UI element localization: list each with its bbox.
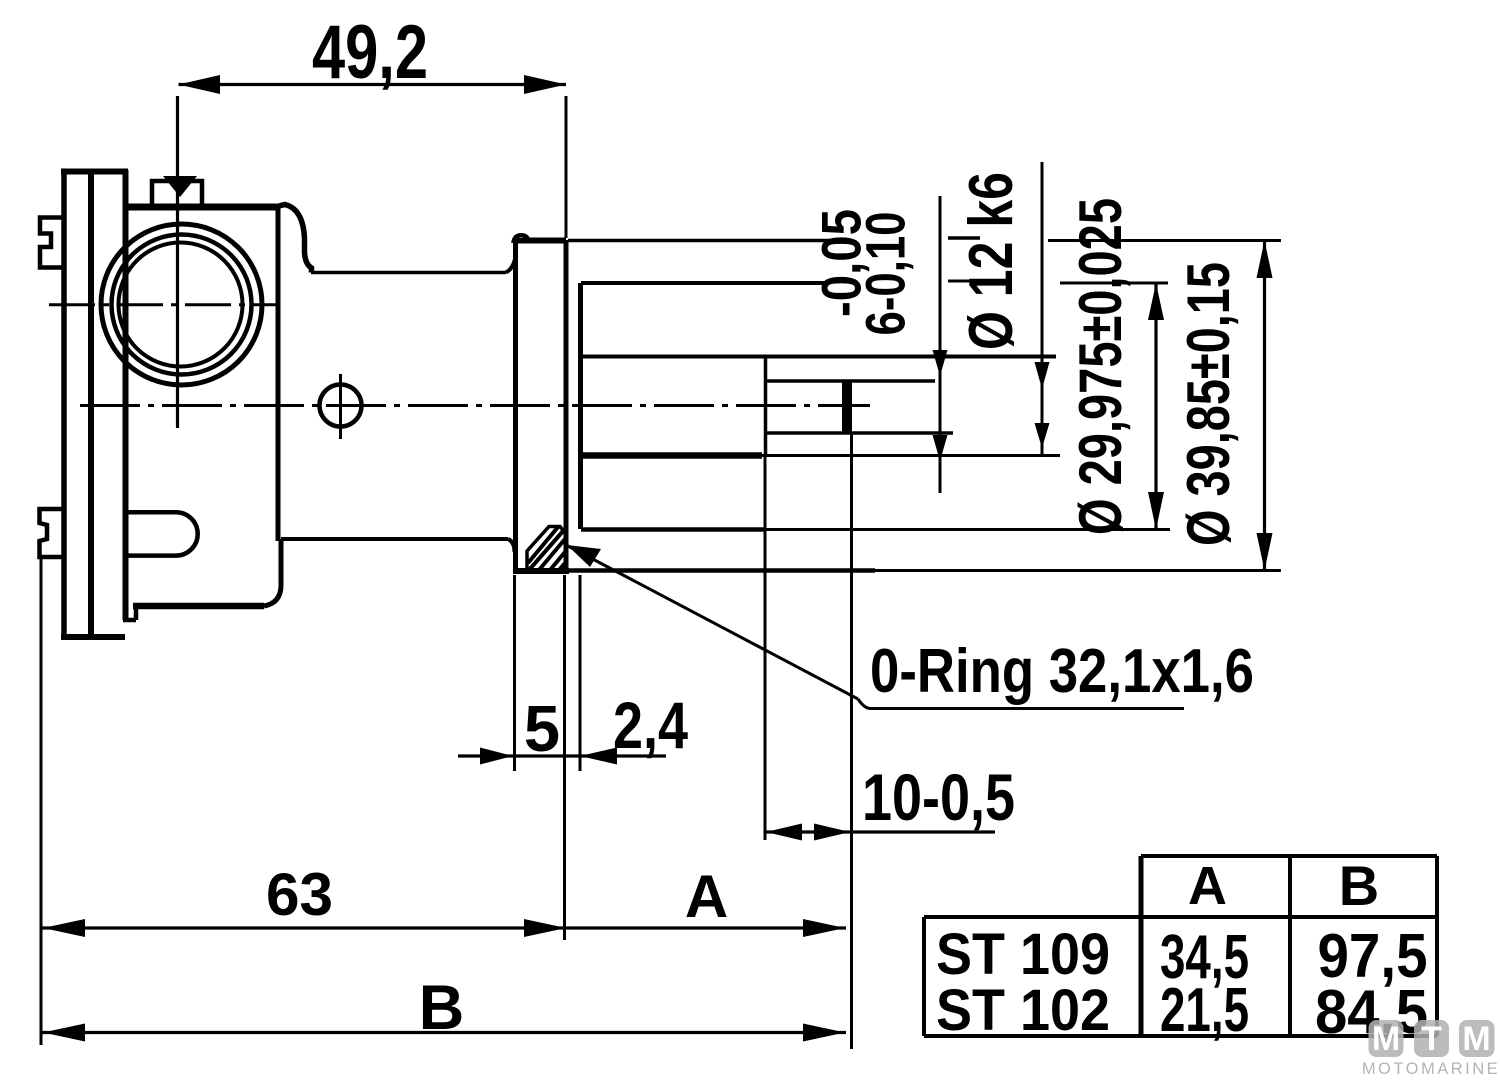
slot bottom line <box>765 431 953 435</box>
slot inner end face <box>842 380 852 434</box>
tube top edge <box>581 281 827 285</box>
mounting slot with rounded end <box>126 512 198 555</box>
svg-text:63: 63 <box>266 861 333 928</box>
small hole circle with cross <box>320 374 362 439</box>
svg-text:B: B <box>1339 854 1379 917</box>
dim 10-0,5 <box>765 433 995 1049</box>
upper left tab <box>40 218 63 268</box>
port middle circle <box>112 235 252 375</box>
lower left tab <box>40 509 64 557</box>
svg-text:B: B <box>419 973 465 1043</box>
tube top extension segments <box>948 280 980 283</box>
boss on body top <box>152 181 202 207</box>
port bore circle <box>119 243 243 367</box>
port outer circle <box>101 224 262 385</box>
slot step vertical <box>764 357 768 457</box>
shaft axis center line <box>80 404 870 407</box>
svg-text:6-0,10: 6-0,10 <box>854 212 917 336</box>
dim 49,2 line <box>163 75 566 238</box>
svg-text:M: M <box>1462 1020 1490 1058</box>
dim B line <box>41 1024 846 1042</box>
svg-text:ST 102: ST 102 <box>936 978 1110 1043</box>
slot top line <box>765 379 935 383</box>
port vertical center line <box>176 96 179 428</box>
svg-text:MOTOMARINE: MOTOMARINE <box>1362 1060 1500 1078</box>
svg-text:0-Ring 32,1x1,6: 0-Ring 32,1x1,6 <box>870 637 1254 706</box>
svg-text:49,2: 49,2 <box>312 10 428 95</box>
dim O39,85 vertical line <box>1257 241 1273 571</box>
pump body outline <box>123 170 516 620</box>
shaft bottom line <box>583 452 762 459</box>
port horizontal center line <box>49 303 280 306</box>
O-ring leader line <box>567 545 1184 709</box>
svg-text:Ø 39,85±0,15: Ø 39,85±0,15 <box>1175 262 1242 546</box>
svg-text:5: 5 <box>524 692 560 765</box>
svg-text:Ø 12 k6: Ø 12 k6 <box>957 172 1026 350</box>
left end plate <box>61 170 128 637</box>
O-ring groove hatched <box>527 527 566 571</box>
svg-text:A: A <box>685 863 728 930</box>
tube bottom edge <box>581 527 764 532</box>
dim 6-0,10 vertical line <box>1035 162 1050 456</box>
svg-text:2,4: 2,4 <box>613 688 688 762</box>
svg-text:T: T <box>1421 1020 1442 1058</box>
svg-text:21,5: 21,5 <box>1160 976 1249 1045</box>
dim 5 / 2,4 <box>458 575 666 940</box>
table <box>924 856 1437 1036</box>
dim O12 k6 vertical line <box>933 196 948 493</box>
MTM logo <box>1362 1020 1500 1078</box>
flange bottom extension line right <box>569 568 875 573</box>
shaft top line <box>581 355 1057 359</box>
flange top extension line right <box>568 239 833 243</box>
dim O29,975 vertical line <box>1148 283 1164 530</box>
mounting flange <box>513 235 569 571</box>
svg-text:Ø 29,975±0,025: Ø 29,975±0,025 <box>1067 198 1134 535</box>
bearing tube shoulder <box>578 283 583 529</box>
svg-text:10-0,5: 10-0,5 <box>862 760 1015 834</box>
dim 63 / A line <box>41 557 846 1045</box>
svg-text:A: A <box>1188 856 1227 916</box>
svg-text:M: M <box>1372 1020 1400 1058</box>
tube bottom extension <box>764 528 1170 531</box>
